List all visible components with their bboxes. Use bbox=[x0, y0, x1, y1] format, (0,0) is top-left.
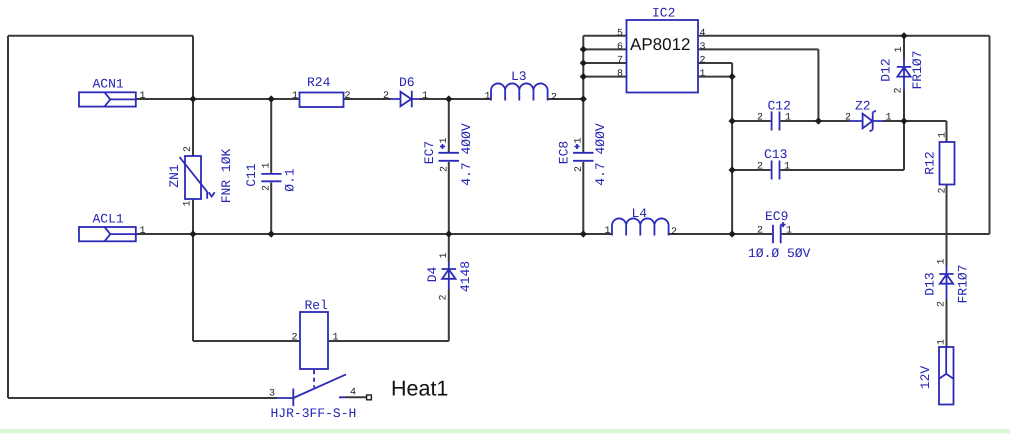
svg-text:ACL1: ACL1 bbox=[93, 212, 124, 227]
svg-text:2: 2 bbox=[383, 91, 389, 102]
svg-text:L4: L4 bbox=[632, 206, 648, 221]
svg-text:2: 2 bbox=[757, 226, 763, 237]
svg-text:1: 1 bbox=[784, 162, 790, 173]
svg-text:2: 2 bbox=[292, 333, 298, 344]
svg-text:2: 2 bbox=[700, 56, 706, 67]
svg-text:2: 2 bbox=[757, 113, 763, 124]
svg-text:C13: C13 bbox=[764, 147, 787, 162]
svg-text:2: 2 bbox=[757, 162, 763, 173]
svg-text:R12: R12 bbox=[923, 151, 938, 174]
svg-text:4.7 4ØØV: 4.7 4ØØV bbox=[593, 123, 608, 186]
svg-text:3: 3 bbox=[700, 42, 706, 53]
svg-text:1: 1 bbox=[886, 113, 892, 124]
svg-text:2: 2 bbox=[551, 93, 557, 104]
svg-text:4.7 4ØØV: 4.7 4ØØV bbox=[459, 123, 474, 186]
svg-text:1: 1 bbox=[262, 162, 273, 168]
svg-text:AP8012: AP8012 bbox=[630, 35, 691, 54]
svg-text:EC8: EC8 bbox=[557, 141, 572, 164]
svg-text:C11: C11 bbox=[244, 163, 259, 187]
svg-text:1: 1 bbox=[422, 91, 428, 102]
svg-text:4148: 4148 bbox=[458, 261, 473, 292]
svg-text:1: 1 bbox=[140, 91, 146, 102]
svg-text:1: 1 bbox=[937, 258, 948, 264]
svg-text:ACN1: ACN1 bbox=[93, 77, 124, 92]
svg-text:D4: D4 bbox=[425, 267, 440, 283]
svg-text:D6: D6 bbox=[399, 75, 415, 90]
svg-text:12V: 12V bbox=[918, 366, 933, 390]
svg-text:5: 5 bbox=[617, 29, 623, 40]
svg-text:C12: C12 bbox=[768, 99, 791, 114]
svg-text:1: 1 bbox=[292, 91, 298, 102]
svg-text:6: 6 bbox=[617, 42, 623, 53]
svg-text:L3: L3 bbox=[511, 69, 527, 84]
svg-text:FR1Ø7: FR1Ø7 bbox=[956, 264, 971, 303]
svg-text:1: 1 bbox=[439, 252, 450, 258]
svg-text:1: 1 bbox=[485, 92, 491, 103]
svg-text:4: 4 bbox=[700, 29, 706, 40]
svg-text:FR1Ø7: FR1Ø7 bbox=[910, 50, 925, 89]
svg-text:D12: D12 bbox=[879, 58, 894, 81]
svg-text:1: 1 bbox=[894, 46, 905, 52]
svg-text:1: 1 bbox=[333, 333, 339, 344]
svg-text:EC7: EC7 bbox=[422, 141, 437, 164]
svg-text:Z2: Z2 bbox=[855, 99, 871, 114]
svg-text:1: 1 bbox=[605, 226, 611, 237]
svg-text:1: 1 bbox=[786, 226, 792, 237]
svg-text:FNR 1ØK: FNR 1ØK bbox=[219, 148, 234, 203]
svg-text:7: 7 bbox=[617, 56, 623, 67]
svg-text:R24: R24 bbox=[307, 75, 331, 90]
svg-text:2: 2 bbox=[440, 166, 451, 172]
svg-text:1: 1 bbox=[574, 137, 585, 143]
svg-text:2: 2 bbox=[183, 146, 194, 152]
svg-text:1: 1 bbox=[938, 132, 949, 138]
svg-text:1: 1 bbox=[937, 339, 948, 345]
svg-text:HJR-3FF-S-H: HJR-3FF-S-H bbox=[271, 406, 357, 421]
svg-text:2: 2 bbox=[262, 185, 273, 191]
svg-text:3: 3 bbox=[269, 389, 275, 400]
svg-text:2: 2 bbox=[938, 187, 949, 193]
svg-text:IC2: IC2 bbox=[652, 6, 675, 21]
svg-text:1: 1 bbox=[140, 226, 146, 237]
svg-text:1: 1 bbox=[439, 137, 450, 143]
svg-text:2: 2 bbox=[439, 294, 450, 300]
svg-text:2: 2 bbox=[574, 166, 585, 172]
svg-text:1: 1 bbox=[700, 69, 706, 80]
svg-text:Rel: Rel bbox=[305, 298, 329, 313]
svg-text:D13: D13 bbox=[923, 272, 938, 295]
svg-text:1: 1 bbox=[183, 200, 194, 206]
svg-text:Heat1: Heat1 bbox=[391, 377, 448, 401]
svg-text:2: 2 bbox=[894, 87, 905, 93]
svg-text:EC9: EC9 bbox=[765, 209, 788, 224]
svg-text:1Ø.Ø 5ØV: 1Ø.Ø 5ØV bbox=[748, 246, 811, 261]
svg-text:2: 2 bbox=[345, 91, 351, 102]
svg-text:2: 2 bbox=[937, 301, 948, 307]
svg-text:2: 2 bbox=[671, 227, 677, 238]
svg-text:8: 8 bbox=[617, 69, 623, 80]
svg-text:4: 4 bbox=[350, 388, 356, 399]
svg-text:Ø.1: Ø.1 bbox=[283, 168, 298, 192]
svg-text:ZN1: ZN1 bbox=[167, 164, 182, 188]
svg-text:2: 2 bbox=[845, 113, 851, 124]
svg-text:1: 1 bbox=[785, 113, 791, 124]
